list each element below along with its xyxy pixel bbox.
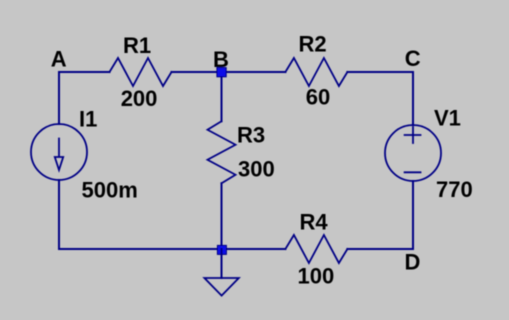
svg-text:500m: 500m — [82, 178, 138, 203]
wire I1 bottom to bottom rail — [58, 180, 60, 249]
value label 300 — [238, 157, 275, 182]
V1 minus sign — [405, 171, 421, 173]
label I1 — [79, 107, 97, 132]
svg-text:R2: R2 — [299, 32, 327, 57]
voltage source V1 circle — [385, 125, 441, 181]
value label 200 — [121, 86, 158, 111]
label R2 — [299, 32, 327, 57]
node B label — [213, 47, 229, 72]
junction ground node — [217, 245, 226, 254]
node A label — [51, 47, 67, 72]
wire R3 bottom pin to ground node — [221, 183, 223, 249]
wire node B to R2 left pin — [222, 71, 286, 73]
wire V1 bottom to node D — [412, 181, 414, 249]
svg-text:D: D — [405, 250, 421, 275]
svg-text:60: 60 — [306, 85, 330, 110]
svg-text:R3: R3 — [237, 123, 265, 148]
ground symbol — [204, 278, 238, 296]
junction node B — [217, 68, 226, 77]
value label 500m — [82, 178, 138, 203]
I1 arrow — [55, 139, 63, 171]
svg-text:R4: R4 — [300, 210, 329, 235]
resistor R1 — [110, 58, 172, 86]
value label 60 — [306, 85, 330, 110]
value label 100 — [298, 264, 335, 289]
node D label — [405, 250, 421, 275]
label V1 — [434, 106, 461, 131]
svg-text:770: 770 — [436, 177, 473, 202]
wire node B down to R3 top pin — [221, 72, 223, 121]
wire R1 right pin to node B — [172, 71, 222, 73]
svg-text:200: 200 — [121, 86, 158, 111]
value label 770 — [436, 177, 473, 202]
label R4 — [300, 210, 329, 235]
svg-text:V1: V1 — [434, 106, 461, 131]
wire R4 right pin to node D — [347, 248, 413, 250]
wire bottom rail: ground node to R4 left pin — [222, 248, 286, 250]
current source I1 circle — [31, 124, 87, 180]
svg-text:A: A — [51, 47, 67, 72]
V1 plus sign — [405, 127, 421, 143]
node C label — [405, 46, 421, 71]
wire top rail: node A to R1 left pin — [59, 71, 110, 73]
svg-text:C: C — [405, 46, 421, 71]
svg-text:300: 300 — [238, 157, 275, 182]
wire node C vertical to V1 top — [412, 72, 414, 125]
wire bottom rail: left corner to ground node — [59, 248, 222, 250]
resistor R4 — [285, 235, 347, 263]
label R1 — [123, 33, 151, 58]
ground stub wire — [221, 249, 223, 278]
wire R2 right pin to node C — [347, 71, 413, 73]
svg-text:R1: R1 — [123, 33, 151, 58]
resistor R3 — [208, 121, 236, 183]
svg-text:100: 100 — [298, 264, 335, 289]
svg-text:I1: I1 — [79, 107, 97, 132]
label R3 — [237, 123, 265, 148]
resistor R2 — [285, 58, 347, 86]
wire A corner: top-left vertical from node A to I1 top — [58, 72, 60, 124]
